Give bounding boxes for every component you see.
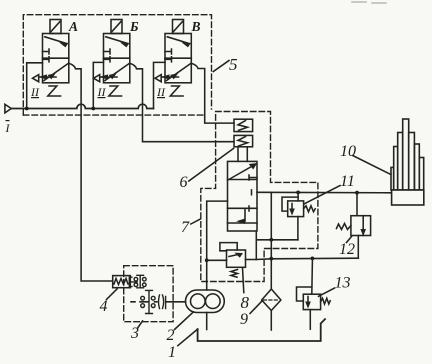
svg-text:12: 12: [339, 241, 355, 258]
label 11: [340, 173, 355, 190]
wire: valve 11 drain down: [297, 217, 299, 240]
label 1: [168, 344, 176, 361]
svg-text:8: 8: [241, 293, 250, 312]
svg-text:7: 7: [181, 219, 190, 236]
label B (Cyrillic Б): [129, 19, 139, 34]
svg-text:II: II: [156, 85, 166, 99]
svg-text:Б: Б: [129, 19, 139, 34]
wire: valve B left port to bus: [93, 62, 103, 108]
solenoid box (valve A): [50, 20, 61, 34]
svg-text:9: 9: [240, 311, 248, 328]
drive symbols in box 3 (motor shaft, gears, coupling): [129, 275, 165, 313]
leader line 3: [138, 321, 143, 328]
wire: valve 8 outlet to drain node: [246, 259, 257, 261]
leader line 12: [347, 237, 352, 243]
pilot valve A: [39, 34, 69, 83]
svg-text:1: 1: [168, 344, 176, 361]
wire: filter to tank: [270, 311, 272, 331]
wire: drain manifold to valves 13 and 12: [256, 258, 358, 259]
wire: branch to valve 8: [207, 259, 227, 261]
node: junction drain manifold / valve 13 stem: [311, 257, 315, 261]
spring unit 4: [113, 276, 131, 288]
wire: valve 12 drain down to drain manifold: [357, 236, 359, 259]
tank 1: [198, 319, 325, 341]
wire: main valve bottom port down: [255, 231, 257, 260]
label 6: [180, 174, 188, 191]
leader line 10: [353, 156, 391, 175]
node: junction at valve 11 stem: [296, 191, 300, 195]
spring (valve A): [48, 86, 61, 96]
leader line 13: [319, 288, 335, 296]
wire: pump pressure line up to main valve: [207, 201, 228, 290]
label 3: [130, 325, 139, 342]
node: junction at valve 12 stem: [355, 191, 359, 195]
label II (valve B): [97, 85, 107, 99]
label II (valve V): [156, 85, 166, 99]
main control valve: [228, 161, 258, 231]
wire: stem from drain manifold to valve 13: [311, 258, 314, 294]
node: junction valve B / bus: [91, 107, 95, 111]
leader line 4: [107, 289, 118, 299]
telescopic load 10: [391, 119, 424, 205]
leader line 1: [178, 329, 198, 346]
pilot triangle (valve V, line II): [155, 75, 161, 82]
wire: bus line I with hops: [11, 104, 153, 108]
pilot valve V (Cyrillic В): [161, 34, 191, 83]
wire: valve V left port to bus: [154, 62, 166, 108]
wire: valve 13 drain to tank: [309, 310, 311, 330]
valve 6 (two spring cells): [234, 119, 253, 147]
enclosure box 5 (dashed): [23, 15, 211, 115]
leader line 9: [250, 302, 262, 314]
svg-text:2: 2: [167, 327, 175, 344]
svg-text:10: 10: [340, 143, 356, 160]
pump 2: [186, 290, 225, 313]
leader line 11: [304, 186, 340, 205]
label 5: [229, 55, 238, 74]
pilot valve B (Cyrillic Б): [100, 34, 130, 83]
label 13: [335, 275, 351, 292]
svg-text:5: 5: [229, 55, 238, 74]
label 8: [241, 293, 250, 312]
wire: return line from control line down to filter: [270, 192, 272, 289]
label V (Cyrillic В): [191, 19, 201, 34]
relief valve 8: [220, 243, 246, 278]
label 2: [167, 327, 175, 344]
wire: valve A left port to bus: [27, 63, 43, 109]
wire: valve 6 stems to main valve: [238, 147, 247, 162]
label I: [5, 121, 11, 135]
enclosure box 7 (dashed, stepped): [201, 112, 318, 282]
leader line 5: [213, 61, 229, 72]
solenoid box (valve V): [173, 20, 184, 34]
node: junction drain cross / return line: [269, 238, 273, 242]
wire: pump suction to tank: [206, 313, 208, 330]
pilot triangle (valve A, line II): [33, 75, 39, 82]
label 12: [339, 241, 355, 258]
label 9: [240, 311, 248, 328]
relief valve 11: [282, 197, 315, 216]
svg-text:13: 13: [335, 275, 351, 292]
node: junction return / drain manifold: [269, 257, 273, 261]
label 4: [100, 298, 108, 315]
wire: valve B output down and right to valve 6 lower port: [130, 63, 234, 142]
wire: stem from control line to valve 12: [356, 193, 358, 216]
scan smudge top edge: [352, 2, 386, 3]
label 10: [340, 143, 356, 160]
spring (valve B): [109, 86, 122, 96]
svg-text:6: 6: [180, 174, 188, 191]
svg-text:4: 4: [100, 298, 108, 315]
wire: drive shaft to pump: [131, 301, 186, 303]
wire: drain cross line to valve 11 stem: [256, 239, 298, 241]
leader line 7: [191, 219, 201, 224]
label 7: [181, 219, 190, 236]
leader line 6: [189, 149, 234, 182]
leader line 2: [175, 312, 194, 330]
drive box 3 (dashed): [124, 266, 173, 322]
solenoid box (valve B): [111, 20, 122, 34]
svg-text:II: II: [30, 85, 40, 99]
svg-text:II: II: [97, 85, 107, 99]
svg-text:В: В: [191, 19, 201, 34]
node: junction valve A / bus: [25, 107, 29, 111]
inlet triangle (line I): [5, 104, 11, 113]
wire: control line from main valve to units 11,12,10: [257, 191, 391, 194]
svg-text:11: 11: [340, 173, 355, 190]
filter 9: [262, 289, 281, 311]
pilot triangle (valve B, line II): [94, 75, 100, 82]
label II (valve A): [30, 85, 40, 99]
leader line 8: [243, 268, 244, 293]
node: junction pressure line / valve 8 branch: [205, 258, 209, 262]
spring (valve V): [170, 86, 183, 96]
svg-text:А: А: [68, 19, 78, 34]
wire: stem from control line to valve 11: [297, 192, 299, 201]
wire: valve A output down to unit 4: [69, 63, 113, 281]
wire: valve V output down and right to valve 6 upper port: [191, 63, 234, 123]
relief valve 13: [297, 287, 331, 310]
relief valve 12: [337, 216, 371, 236]
label A: [68, 19, 78, 34]
